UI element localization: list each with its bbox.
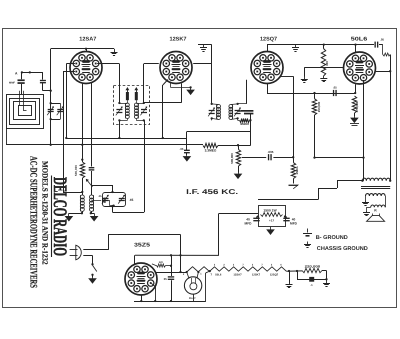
svg-text:12SK7: 12SK7 [252,274,261,277]
svg-text:500,000: 500,000 [230,153,234,164]
svg-text:.005: .005 [268,150,274,154]
svg-text:MFD: MFD [245,222,253,226]
svg-text:35: 35 [164,277,168,281]
svg-text:.05: .05 [333,85,337,89]
svg-text:45: 45 [130,198,134,202]
svg-text:220: 220 [159,261,164,264]
svg-text:45000: 45000 [240,122,249,126]
svg-text:AC-DC SUPERHETERODYNE RECEIVER: AC-DC SUPERHETERODYNE RECEIVERS [27,156,38,288]
svg-text:470,000: 470,000 [355,101,359,112]
svg-text:500,000: 500,000 [74,165,78,176]
svg-text:50L6: 50L6 [215,274,222,277]
svg-text:.05: .05 [180,147,184,151]
svg-text:250,000: 250,000 [317,101,321,112]
svg-text:.05: .05 [98,195,102,198]
svg-text:I.F. 456 KC.: I.F. 456 KC. [186,189,238,196]
svg-text:1500 1W: 1500 1W [263,208,277,212]
svg-text:CHASSIS GROUND: CHASSIS GROUND [317,246,368,252]
svg-text:.05: .05 [380,37,384,41]
svg-text:MODELS R-1230-31 AND R-1232: MODELS R-1230-31 AND R-1232 [40,161,49,265]
svg-text:12SA7: 12SA7 [79,37,96,43]
svg-text:3.3MEG: 3.3MEG [205,149,217,153]
svg-text:50L6: 50L6 [351,37,368,43]
svg-text:150: 150 [325,61,329,66]
svg-text:1MEG: 1MEG [295,166,299,175]
svg-text:12SQ7: 12SQ7 [270,274,279,277]
svg-text:12SK7: 12SK7 [170,37,187,43]
svg-text:B- GROUND: B- GROUND [316,235,348,241]
svg-text:MMF: MMF [9,81,15,84]
svg-text:PILOT: PILOT [189,297,196,300]
svg-text:35Z5: 35Z5 [134,242,150,248]
svg-text:+17: +17 [269,219,274,223]
svg-text:MFD: MFD [290,222,298,226]
svg-text:12SQ7: 12SQ7 [260,37,277,43]
svg-text:12SA7: 12SA7 [233,274,242,277]
